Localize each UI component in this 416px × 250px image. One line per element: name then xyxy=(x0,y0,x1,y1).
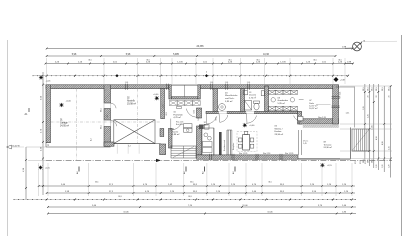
wall room02 right upper xyxy=(161,89,165,119)
room02 bottom line xyxy=(111,143,161,145)
svg-text:Rou 2,26: Rou 2,26 xyxy=(318,117,326,119)
kitchen wall upper xyxy=(197,108,202,118)
sink 1 xyxy=(244,91,248,95)
toilet xyxy=(254,101,260,103)
right exterior wall xyxy=(333,85,339,124)
kitchen counter xyxy=(202,128,214,155)
dining table xyxy=(243,135,250,151)
svg-text:1,135: 1,135 xyxy=(280,61,286,63)
svg-text:Rro 2,26: Rro 2,26 xyxy=(263,152,270,155)
left dim line outer xyxy=(25,147,27,199)
svg-text:Rro 1,135: Rro 1,135 xyxy=(285,152,293,155)
door tick diele xyxy=(299,99,304,101)
svg-text:4,56: 4,56 xyxy=(376,136,378,140)
section line A-A xyxy=(46,159,392,161)
wardrobe X band top xyxy=(269,90,276,94)
svg-text:88,5: 88,5 xyxy=(166,112,168,115)
svg-text:4,2: 4,2 xyxy=(91,138,93,141)
kitchen tall cabinet dark xyxy=(219,132,222,155)
wall top segment A xyxy=(46,85,171,89)
svg-text:Essplatz: Essplatz xyxy=(232,143,235,150)
left exterior wall xyxy=(46,85,51,143)
small rect hall xyxy=(177,107,182,109)
dimension row top 2 xyxy=(47,55,336,57)
svg-text:und Tech.: und Tech. xyxy=(225,98,235,100)
bottom wall joint ticks xyxy=(209,154,211,160)
left connector lines xyxy=(26,146,46,148)
svg-text:36,5: 36,5 xyxy=(268,182,271,184)
svg-text:1,01: 1,01 xyxy=(163,104,165,108)
svg-text:Kochbereich: Kochbereich xyxy=(224,140,226,151)
svg-text:1,26: 1,26 xyxy=(363,106,365,110)
svg-text:36,5: 36,5 xyxy=(188,196,192,198)
svg-text:Abst.: Abst. xyxy=(204,124,209,127)
svg-text:1,45: 1,45 xyxy=(303,143,307,145)
wardrobe X band bottom xyxy=(269,106,276,110)
garage door 2 lines xyxy=(103,120,105,127)
svg-text:1,01: 1,01 xyxy=(247,82,251,84)
svg-text:38,5: 38,5 xyxy=(389,87,391,91)
cellar stair xyxy=(171,146,196,158)
svg-text:16,37 m²: 16,37 m² xyxy=(309,107,318,110)
floor opening X room02 xyxy=(114,120,155,144)
svg-text:80,5: 80,5 xyxy=(101,125,103,129)
svg-text:Terrasse: Terrasse xyxy=(324,143,333,146)
leader line diele xyxy=(316,103,331,105)
svg-text:-0,15: -0,15 xyxy=(327,165,333,167)
pergola east line xyxy=(353,87,355,128)
door arc corridor xyxy=(171,123,181,130)
svg-text:36,5: 36,5 xyxy=(256,59,259,61)
svg-text:36,5: 36,5 xyxy=(190,182,193,184)
svg-text:38,5: 38,5 xyxy=(382,87,384,91)
svg-text:1,38: 1,38 xyxy=(198,117,200,120)
terrace east edge xyxy=(350,128,352,159)
garage door 1 lines xyxy=(103,103,105,109)
door arc porch-hall xyxy=(186,109,196,118)
svg-text:16,00 W: 16,00 W xyxy=(12,146,20,148)
stair arrow xyxy=(353,130,369,150)
dimension row top 3 xyxy=(46,63,354,65)
svg-text:-0,05: -0,05 xyxy=(45,167,51,169)
svg-text:5,95 m²: 5,95 m² xyxy=(278,102,286,105)
diamond on meter line right xyxy=(334,77,339,82)
svg-text:19,06: 19,06 xyxy=(242,205,248,207)
svg-text:4,70 m²: 4,70 m² xyxy=(249,96,256,99)
svg-text:5,985: 5,985 xyxy=(173,54,179,56)
svg-text:1,01: 1,01 xyxy=(225,82,229,84)
svg-text:Abstellr.: Abstellr. xyxy=(127,99,136,102)
kitchen wall lower xyxy=(197,126,202,155)
right connector lines xyxy=(340,85,392,87)
level mark xyxy=(154,96,159,101)
svg-text:10,96: 10,96 xyxy=(263,54,269,56)
svg-text:9,98 m²: 9,98 m² xyxy=(172,133,180,136)
dim row bottom 2 xyxy=(47,192,355,194)
entry glazing X band xyxy=(169,101,177,106)
svg-text:Essber.: Essber. xyxy=(275,130,283,133)
top wall joint ticks xyxy=(125,84,127,90)
sink 2 xyxy=(261,91,264,96)
washing machine circle xyxy=(219,104,226,111)
svg-text:Brü 0,00: Brü 0,00 xyxy=(176,123,183,126)
porch niche outline xyxy=(171,85,197,96)
right wall joint ticks xyxy=(332,96,340,98)
wall top segment B xyxy=(199,85,339,89)
svg-text:10,06: 10,06 xyxy=(123,211,129,213)
terrace window jamb xyxy=(297,130,299,155)
svg-text:1,01: 1,01 xyxy=(194,110,196,113)
svg-text:5,98: 5,98 xyxy=(126,54,131,56)
porch left jamb xyxy=(169,85,172,99)
extension lines top xyxy=(46,58,48,84)
svg-text:3,95 m²: 3,95 m² xyxy=(225,100,233,103)
svg-text:12,57 m²: 12,57 m² xyxy=(309,104,318,107)
kitchen island lines xyxy=(226,130,228,155)
svg-text:4,78 m²: 4,78 m² xyxy=(173,116,181,119)
svg-text:1,26: 1,26 xyxy=(389,165,391,169)
svg-text:+0,00: +0,00 xyxy=(66,101,72,103)
svg-text:20: 20 xyxy=(389,96,391,98)
level mark xyxy=(39,75,44,80)
svg-text:Rro 1,135: Rro 1,135 xyxy=(239,152,247,155)
terrace south edge xyxy=(298,158,351,160)
axis horizontal xyxy=(51,121,161,123)
svg-text:38,5: 38,5 xyxy=(367,159,369,163)
svg-text:38,5: 38,5 xyxy=(367,87,369,91)
svg-text:Rro 2,01: Rro 2,01 xyxy=(340,92,342,99)
svg-text:Garage: Garage xyxy=(60,122,68,125)
wall wc mid xyxy=(241,89,245,112)
garage bottom edge xyxy=(46,146,111,148)
garage right wall xyxy=(104,85,111,103)
kitchen appliances top dark xyxy=(199,125,204,130)
washer dryer circles xyxy=(271,98,275,102)
svg-text:28,36 m²: 28,36 m² xyxy=(275,133,284,136)
bottom exterior wall xyxy=(197,155,299,159)
section marker A4 xyxy=(204,167,206,172)
shower square xyxy=(245,101,252,111)
wall wc left xyxy=(213,89,218,112)
svg-text:4,96: 4,96 xyxy=(382,141,384,145)
svg-text:38,5: 38,5 xyxy=(372,159,374,163)
dimension row top 1 xyxy=(47,48,353,50)
svg-text:34,95 m²: 34,95 m² xyxy=(60,125,69,128)
svg-text:1,01: 1,01 xyxy=(210,82,214,84)
door arc hall2 xyxy=(294,116,302,122)
porch roof line xyxy=(171,84,199,86)
wall corridor hatch low xyxy=(160,144,166,155)
door arc wc1 xyxy=(220,115,228,122)
svg-text:36,5: 36,5 xyxy=(228,59,231,61)
right page border xyxy=(401,35,403,236)
svg-text:1,135: 1,135 xyxy=(177,61,183,63)
dim to compass xyxy=(345,47,353,49)
svg-text:1,01: 1,01 xyxy=(125,82,129,84)
axis vertical room02 xyxy=(137,89,139,144)
svg-text:Waschküche: Waschküche xyxy=(225,95,238,97)
stair cut line xyxy=(173,147,194,158)
door arc wc2 xyxy=(247,116,257,124)
svg-text:10,06: 10,06 xyxy=(267,211,273,213)
section marker A2 left xyxy=(78,167,80,172)
left page border xyxy=(7,40,9,236)
svg-text:+0,00: +0,00 xyxy=(249,125,255,127)
north compass xyxy=(353,42,362,51)
svg-text:26,365: 26,365 xyxy=(196,46,204,48)
axis vertical garage xyxy=(75,89,77,161)
svg-text:19,98 m²: 19,98 m² xyxy=(127,102,136,105)
svg-text:38,5: 38,5 xyxy=(372,87,374,91)
porch bottom band xyxy=(171,97,197,99)
svg-text:1,01: 1,01 xyxy=(107,115,109,119)
svg-text:2,26: 2,26 xyxy=(367,114,369,118)
svg-text:17,5: 17,5 xyxy=(365,161,367,164)
svg-text:36,5: 36,5 xyxy=(118,196,122,198)
pergola top line xyxy=(336,86,354,88)
wall wc right xyxy=(265,86,269,112)
wall room02 right stub xyxy=(160,129,164,137)
svg-text:Garderobe: Garderobe xyxy=(278,99,289,102)
svg-text:17,5: 17,5 xyxy=(355,161,357,164)
level mark xyxy=(59,103,64,108)
svg-text:38,5: 38,5 xyxy=(376,87,378,91)
svg-text:17,5: 17,5 xyxy=(360,161,362,164)
meter line bottom (dotted) xyxy=(14,199,356,201)
door niche hall xyxy=(298,116,303,120)
svg-text:38,5: 38,5 xyxy=(363,87,365,91)
svg-text:80,5: 80,5 xyxy=(101,108,103,112)
svg-text:88,5: 88,5 xyxy=(216,117,218,120)
exterior stairs xyxy=(352,129,369,151)
svg-text:1,135: 1,135 xyxy=(372,125,374,130)
svg-text:Dusche: Dusche xyxy=(249,95,257,97)
svg-text:20: 20 xyxy=(376,96,378,98)
svg-text:36,5: 36,5 xyxy=(88,59,91,61)
level mark xyxy=(38,165,43,170)
svg-text:1,26: 1,26 xyxy=(376,165,378,169)
door arc garage 2 xyxy=(111,121,117,127)
svg-text:5,98: 5,98 xyxy=(72,54,77,56)
section marker A2 mid xyxy=(185,167,187,172)
corner wall right of living xyxy=(298,111,302,124)
svg-text:5,16: 5,16 xyxy=(389,146,391,150)
corridor wc fixtures xyxy=(184,124,193,128)
dim row bottom 1 xyxy=(38,185,355,187)
extension lines bottom xyxy=(38,163,40,196)
wall under small rooms xyxy=(206,111,298,113)
svg-text:20: 20 xyxy=(367,96,369,98)
svg-text:1,26: 1,26 xyxy=(382,165,384,169)
svg-text:36,5: 36,5 xyxy=(338,59,341,61)
left dim line inner xyxy=(42,72,44,195)
level mark xyxy=(320,163,325,168)
level mark xyxy=(242,123,247,128)
right dim lines xyxy=(364,84,366,160)
section marker A3 xyxy=(234,167,236,172)
dim row bottom 3 xyxy=(48,206,356,208)
svg-text:24,36 m²: 24,36 m² xyxy=(324,146,333,149)
meter line top (dotted) xyxy=(33,75,349,77)
elevation triangle xyxy=(7,145,12,149)
door arc garage 1 xyxy=(111,103,117,108)
wall hall south xyxy=(299,119,339,124)
svg-text:36,5: 36,5 xyxy=(95,182,98,184)
svg-text:+0,00: +0,00 xyxy=(153,94,159,96)
dining area dashed rect xyxy=(237,131,257,151)
svg-text:Wohnz./: Wohnz./ xyxy=(275,128,283,130)
door arc hall xyxy=(207,116,217,124)
step strip below hall wall xyxy=(303,125,339,127)
svg-text:Flur/Diele: Flur/Diele xyxy=(173,113,183,116)
wall x168.5 low xyxy=(169,128,173,148)
svg-text:Küche: Küche xyxy=(172,131,179,133)
svg-text:36,5: 36,5 xyxy=(313,59,316,61)
dim row bottom 4 xyxy=(48,213,356,215)
porch right jamb xyxy=(198,85,201,99)
svg-text:36,5: 36,5 xyxy=(146,59,149,61)
